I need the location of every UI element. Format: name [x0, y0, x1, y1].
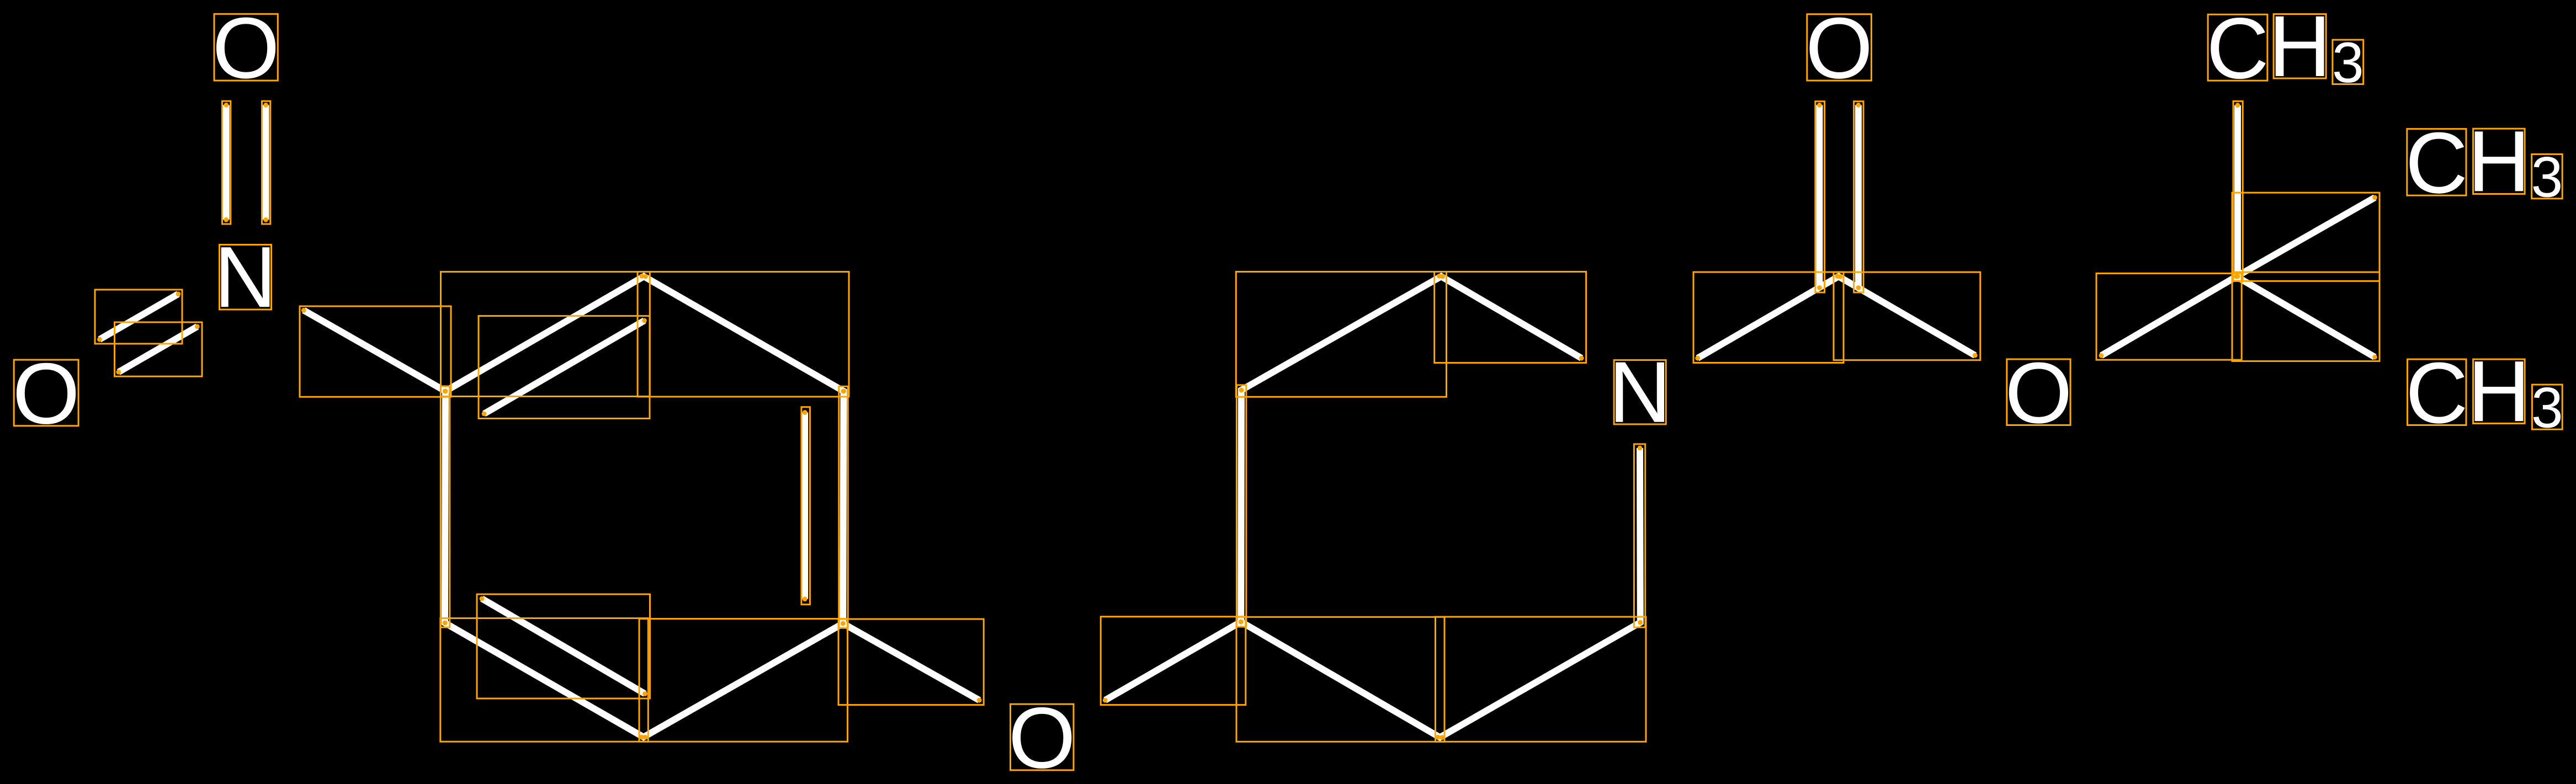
bond C4-O ether endpoint dots: [841, 621, 982, 703]
atom label CH3 top glyphs: [2206, 0, 2363, 97]
atom label CH3 lower-right glyphs: [2405, 343, 2563, 441]
benzene inner double bond top-left line: [484, 321, 645, 414]
bond C4-O ether line: [843, 623, 979, 700]
bond C4-O ether bbox: [838, 619, 984, 705]
piperidine ring outline (bonds C2'-C3'-C4'-C5'-C6'): [1241, 276, 1640, 738]
svg-text:N: N: [214, 229, 277, 326]
nitro N=O up line 1 bbox: [222, 101, 231, 224]
piperidine bond C2'-N1' bbox: [1435, 272, 1586, 363]
carbonyl C=O line 2 line: [1855, 105, 1862, 287]
carbonyl C=O line 1 line: [1816, 105, 1823, 287]
nitro N=O up line 1 endpoint dots: [224, 103, 229, 222]
piperidine bond C5'-C6' bottom-right bbox: [1436, 617, 1646, 742]
nitro N=O up line 2 line: [263, 105, 269, 220]
benzene inner double bond bottom-left endpoint dots: [480, 596, 647, 696]
atom label CH3 top bbox: [2208, 14, 2363, 84]
benzene inner double bond right bbox: [801, 407, 810, 605]
atom label O nitro top bbox: [214, 14, 278, 81]
piperidine bond C4'-C5' bottom-left bbox: [1236, 617, 1444, 742]
benzene inner double bond right endpoint dots: [803, 410, 808, 601]
piperidine bond C5'-C6' bottom-right endpoint dots: [1440, 620, 1643, 740]
piperidine bond C2'-N1' endpoint dots: [1440, 274, 1584, 361]
carbonyl C=O line 2 bbox: [1854, 102, 1863, 292]
benzene bond C3-C4 right vertical bbox: [839, 386, 848, 628]
bond N1'-C carbonyl bbox: [1693, 272, 1844, 362]
piperidine bond C4'-C5' bottom-left endpoint dots: [1239, 620, 1441, 740]
bond O ether-C4' piperidine bbox: [1101, 617, 1246, 705]
piperidine bond C3'-C2' endpoint dots: [1239, 274, 1442, 392]
atom label N nitro bbox: [220, 245, 272, 310]
atom label CH3 lower-right bbox: [2408, 359, 2563, 429]
benzene bond C3-C4 right vertical endpoint dots: [841, 389, 846, 626]
piperidine bond C4'-C3' left vertical bbox: [1236, 385, 1246, 627]
bond Cq-CH3 top vertical bbox: [2233, 101, 2243, 281]
bond Cq-CH3 lower-right endpoint dots: [2234, 274, 2377, 360]
bond Cq-CH3 upper-right bbox: [2232, 193, 2380, 281]
atom label CH3 upper-right bbox: [2407, 129, 2562, 199]
atom label O carbonyl glyphs: [1805, 0, 1873, 97]
atom label O ester bbox: [2007, 359, 2070, 425]
benzene bond C1-C2 top-left endpoint dots: [443, 274, 645, 393]
svg-text:N: N: [1608, 344, 1671, 441]
piperidine bond N1'-C6' right vertical endpoint dots: [1638, 446, 1643, 625]
atom label O nitro left bbox: [14, 360, 78, 426]
nitro N=O up line 2 endpoint dots: [263, 103, 268, 222]
carbonyl C=O line 2 endpoint dots: [1856, 103, 1861, 290]
bond Cq-CH3 lower-right bbox: [2232, 272, 2380, 361]
svg-text:H: H: [2468, 113, 2530, 210]
bond O ester-C quaternary endpoint dots: [2099, 274, 2239, 358]
bond O ester-C quaternary line: [2101, 276, 2237, 355]
benzene inner double bond bottom-left bbox: [477, 594, 650, 698]
benzene bond C1-C6 left vertical endpoint dots: [443, 389, 448, 626]
benzene bond C1-C2 top-left bbox: [441, 272, 650, 397]
atom label O nitro top glyphs: [213, 0, 280, 97]
bond Cq-CH3 top vertical line: [2234, 105, 2241, 276]
benzene bond C2-C3 top-right bbox: [638, 272, 849, 397]
atom label N piperidine glyphs: [1608, 344, 1671, 441]
bond N-C1 benzene endpoint dots: [301, 308, 448, 393]
nitro N=O left line 1 line: [99, 294, 178, 339]
benzene bond C2-C3 top-right endpoint dots: [643, 274, 846, 394]
piperidine bond C4'-C3' left vertical endpoint dots: [1239, 388, 1244, 625]
benzene bond C5-C4 bottom-right endpoint dots: [642, 621, 845, 740]
benzene bond C6-C5 bottom-left endpoint dots: [443, 621, 644, 740]
atom label O carbonyl bbox: [1807, 14, 1872, 81]
benzene inner double bond top-left bbox: [479, 316, 650, 419]
bond N-C1 benzene bbox: [300, 306, 451, 397]
bond Cq-CH3 top vertical endpoint dots: [2235, 103, 2240, 279]
nitro N=O up line 1 line: [223, 105, 230, 220]
piperidine bond N1'-C6' right vertical bbox: [1634, 444, 1645, 627]
bond C carbonyl-O ester endpoint dots: [1838, 274, 1978, 358]
bond O ether-C4' piperidine line: [1105, 622, 1241, 700]
carbonyl C=O line 1 endpoint dots: [1817, 103, 1822, 290]
bond Cq-CH3 lower-right line: [2237, 276, 2375, 357]
atom label O ether bbox: [1011, 704, 1074, 770]
bond O ether-C4' piperidine endpoint dots: [1103, 620, 1244, 703]
nitro N=O left line 2 endpoint dots: [116, 324, 199, 375]
atom label N nitro glyphs: [214, 229, 277, 326]
svg-text:H: H: [2468, 343, 2530, 440]
benzene bond C6-C5 bottom-left bbox: [440, 618, 649, 742]
atom label O ester glyphs: [2005, 345, 2072, 441]
nitro N=O left line 2 bbox: [115, 322, 203, 376]
carbonyl C=O line 1 bbox: [1815, 102, 1825, 292]
benzene inner double bond top-left endpoint dots: [482, 318, 647, 417]
bond N1'-C carbonyl endpoint dots: [1695, 274, 1840, 360]
bond N-C1 benzene line: [304, 310, 445, 391]
bond O ester-C quaternary bbox: [2096, 274, 2242, 360]
bond Cq-CH3 upper-right endpoint dots: [2234, 195, 2377, 279]
atom label O nitro left glyphs: [13, 345, 80, 442]
bond C carbonyl-O ester bbox: [1834, 272, 1980, 360]
nitro N=O left line 2 line: [119, 327, 197, 372]
atom label N piperidine bbox: [1614, 360, 1666, 424]
benzene ring outline (bonds C1-C2-C3-C4-C5-C6): [445, 276, 844, 737]
benzene inner double bond bottom-left line: [482, 599, 645, 694]
svg-text:3: 3: [2531, 376, 2563, 440]
atom label O ether glyphs: [1008, 690, 1076, 784]
benzene inner double bond right line: [801, 413, 808, 599]
bond N1'-C carbonyl line: [1698, 276, 1975, 358]
bond Cq-CH3 upper-right line: [2237, 198, 2375, 276]
nitro N=O left line 1 bbox: [95, 290, 182, 344]
piperidine bond C3'-C2' bbox: [1236, 272, 1446, 397]
benzene bond C5-C4 bottom-right bbox: [639, 619, 848, 742]
nitro N=O up line 2 bbox: [262, 101, 270, 224]
nitro N=O left line 1 endpoint dots: [97, 291, 180, 342]
benzene bond C1-C6 left vertical bbox: [440, 386, 450, 627]
atom label CH3 upper-right glyphs: [2405, 113, 2563, 211]
